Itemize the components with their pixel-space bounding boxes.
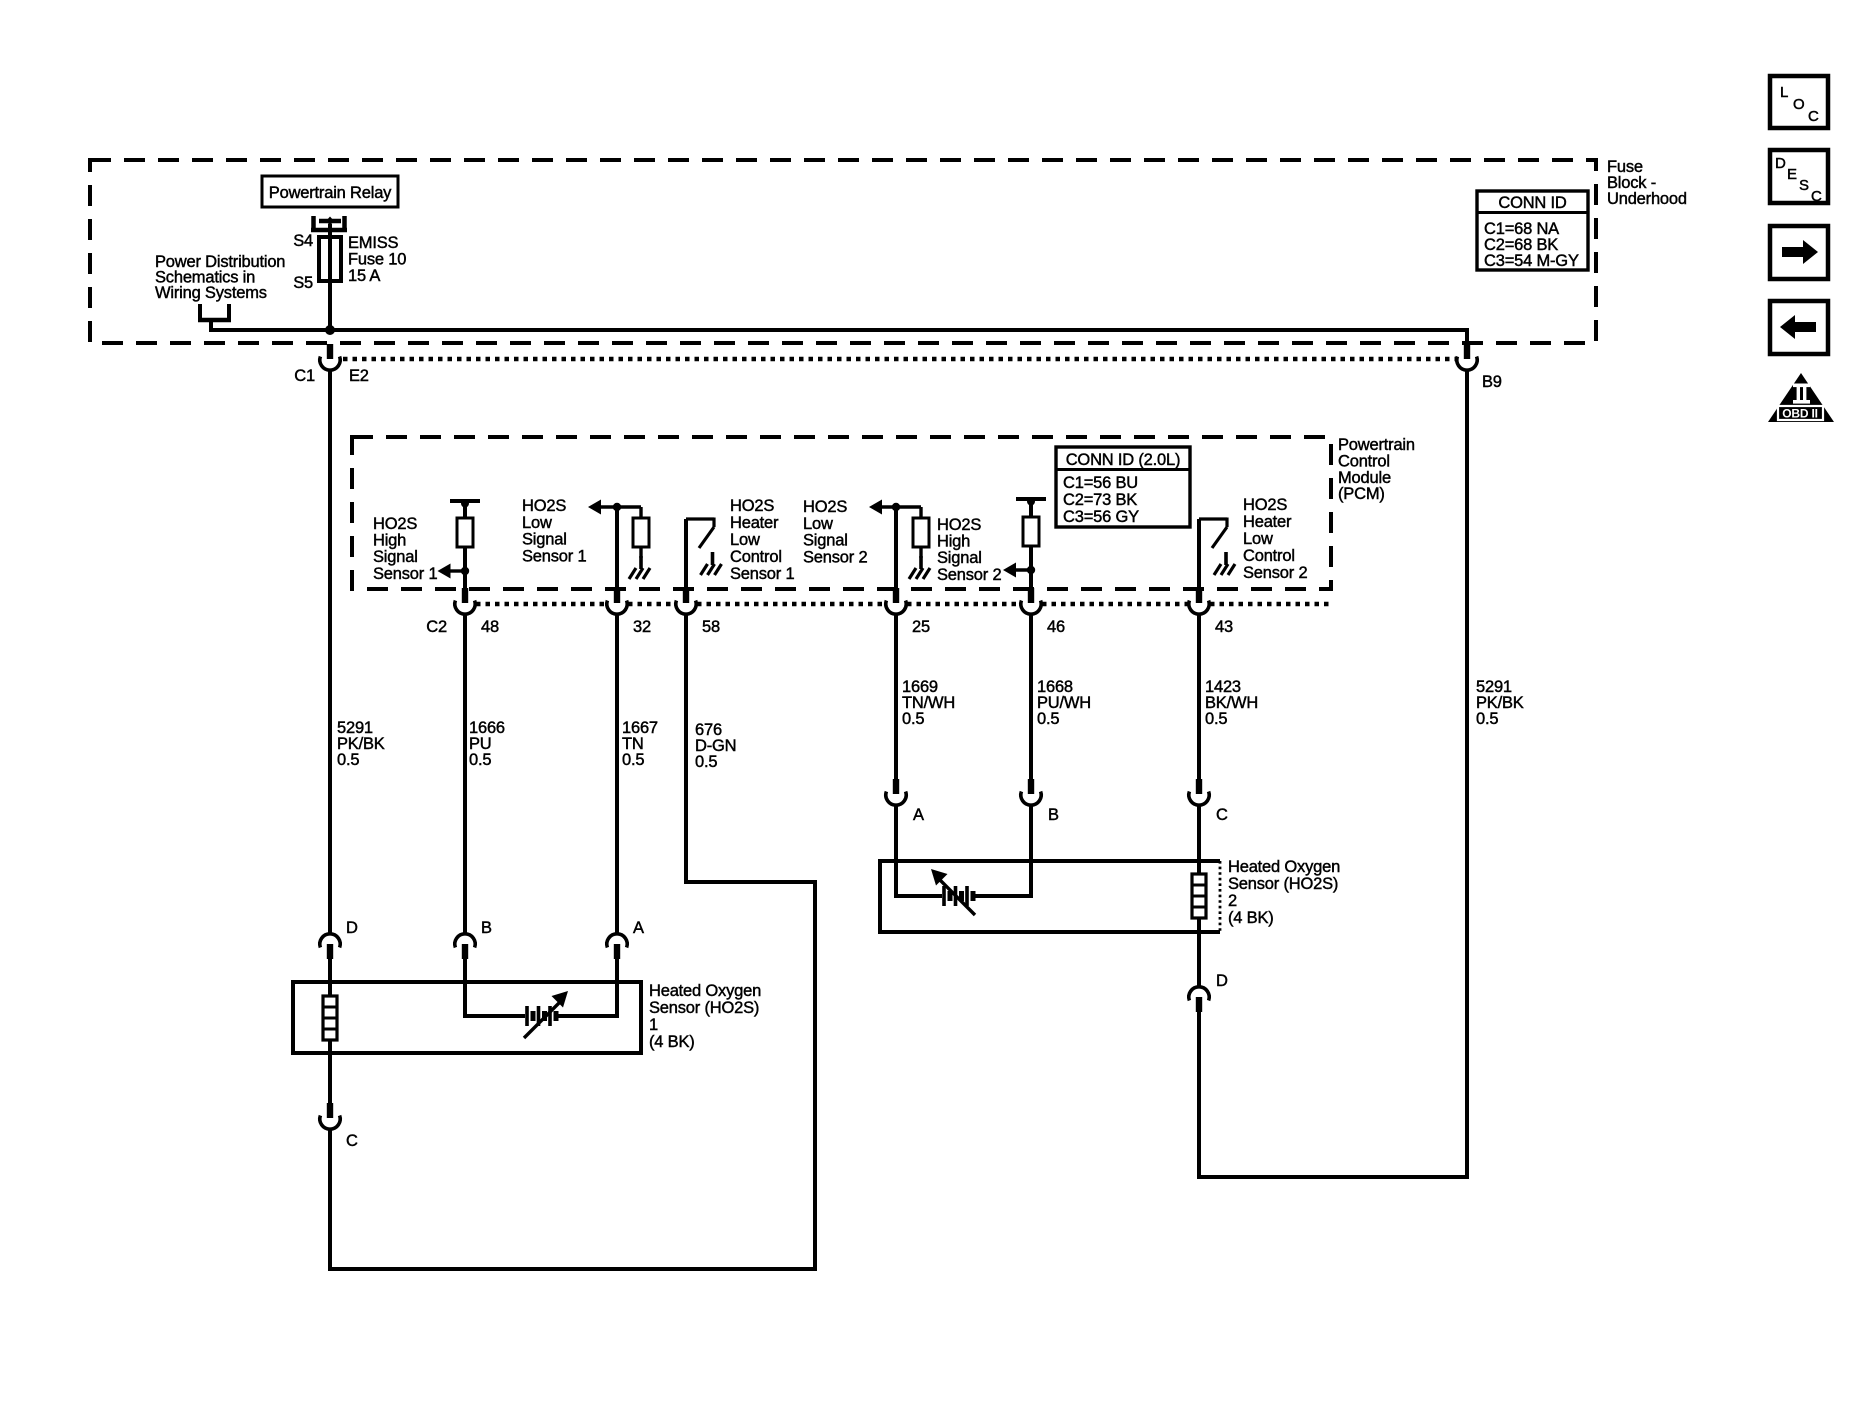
PCM dashed boundary [352,437,1331,589]
svg-text:Signal: Signal [803,532,848,550]
svg-text:S: S [1799,177,1809,194]
svg-text:C: C [1811,188,1822,205]
svg-text:58: 58 [702,618,720,636]
wire into HO2S1 box pin B [463,959,467,984]
svg-text:Signal: Signal [373,548,418,566]
connector id table CONN ID C1=68 NA C2=68 BK C3=54 M-GY [1477,191,1588,270]
svg-text:Control: Control [1338,452,1390,470]
wire into HO2S2 box pin C [1197,805,1201,863]
connector HO2S1 harness pin B [455,934,475,959]
svg-text:S4: S4 [293,232,313,250]
svg-text:Module: Module [1338,469,1391,487]
svg-text:EMISS: EMISS [348,234,399,252]
svg-text:Sensor 2: Sensor 2 [937,566,1001,584]
fuse F10 EMISS 15A [319,237,341,281]
label Powertrain Control Module (PCM) [1338,436,1415,503]
svg-text:E: E [1787,166,1797,183]
svg-text:Low: Low [1243,530,1273,548]
wire HO2S1 D out of box to C connector [328,1053,332,1104]
wire label 1668 PU/WH 0.5 [1037,678,1091,728]
svg-text:48: 48 [481,618,499,636]
svg-text:(PCM): (PCM) [1338,485,1385,503]
PCM internal: HO2S High Signal Sensor 1 pull-up resistor [450,500,480,591]
svg-text:Control: Control [730,548,782,566]
wire comp4 junction to pin 25 [894,507,898,590]
icon previous arrow button [1770,301,1828,354]
svg-text:0.5: 0.5 [337,751,359,769]
svg-text:Powertrain Relay: Powertrain Relay [269,184,392,202]
connector HO2S2 pin D [1189,987,1209,1012]
wire label 1666 PU 0.5 [469,719,505,769]
svg-text:C: C [1216,806,1228,824]
ground symbol comp6 [1214,552,1235,575]
svg-text:Heater: Heater [1243,513,1292,531]
component box Heated Oxygen Sensor HO2S 2 [880,861,1220,932]
svg-text:0.5: 0.5 [902,710,924,728]
PCM internal: HO2S High Signal Sensor 2 pull-up resistor [1016,498,1046,591]
wire label 676 D-GN 0.5 [695,721,736,771]
svg-text:0.5: 0.5 [695,753,717,771]
connector PCM pin 46 [1021,588,1041,614]
wire label 1423 BK/WH 0.5 [1205,678,1258,728]
svg-text:C2=73 BK: C2=73 BK [1063,491,1137,509]
wire 1668 PU/WH pin46 to HO2S2 B [1029,614,1033,780]
svg-text:Low: Low [522,514,552,532]
svg-text:A: A [913,806,924,824]
svg-text:CONN ID: CONN ID [1498,194,1567,212]
wire main feed drop to B9 [1465,328,1469,345]
svg-text:(4 BK): (4 BK) [1228,909,1274,927]
PCM internal: HO2S Low Signal Sensor 2 resistor to ground [869,500,929,559]
relay contact terminal bracket [311,216,347,232]
wire into HO2S1 box pin A [615,959,619,984]
label HO2S Low Signal Sensor 1 [522,497,586,565]
svg-text:Low: Low [730,531,760,549]
svg-text:O: O [1793,96,1804,113]
wire into HO2S1 box pin D [328,959,332,984]
svg-text:C1: C1 [294,367,315,385]
connector C1 / E2 inline [320,344,340,370]
svg-text:Powertrain: Powertrain [1338,436,1415,454]
svg-text:Sensor 1: Sensor 1 [373,565,437,583]
label HO2S High Signal Sensor 2 [937,516,1001,584]
svg-text:2: 2 [1228,892,1237,910]
wire 1666 PU pin48 to HO2S1 B [463,614,467,934]
connector HO2S1 pin C [320,1103,340,1129]
connector B9 inline [1457,344,1477,370]
connector HO2S2 harness pin B [1021,779,1041,805]
svg-text:C1=56 BU: C1=56 BU [1063,474,1138,492]
HO2S2 internal terminal block on pin C [1192,863,1206,932]
svg-text:C3=54 M-GY: C3=54 M-GY [1484,252,1579,270]
svg-text:Signal: Signal [937,549,982,567]
svg-text:0.5: 0.5 [469,751,491,769]
svg-text:HO2S: HO2S [1243,496,1287,514]
ground symbol comp4 [909,556,930,579]
PCM internal: HO2S Heater Low Control Sensor 1 driver switch [686,518,714,591]
arrow to Sensor 1 label [438,564,466,579]
svg-text:46: 46 [1047,618,1065,636]
PCM internal: HO2S Low Signal Sensor 1 resistor to ground [588,500,649,559]
wire 1669 TN/WH pin25 to HO2S2 A [894,614,898,780]
arrow to Sensor 2 label [1003,563,1031,578]
junction dot comp4 [892,503,900,511]
svg-text:Heated Oxygen: Heated Oxygen [1228,858,1340,876]
svg-text:High: High [373,532,406,550]
fuse value label EMISS Fuse 10 15 A [348,234,406,285]
svg-text:0.5: 0.5 [1205,710,1227,728]
PCM internal: HO2S Heater Low Control Sensor 2 driver switch [1199,518,1227,591]
svg-text:Fuse 10: Fuse 10 [348,251,406,269]
svg-text:Signal: Signal [522,531,567,549]
wire fuse S5 down to bus junction [328,281,332,332]
wire 1423 BK/WH pin43 to HO2S2 C [1197,614,1201,780]
label Heated Oxygen Sensor (HO2S) 2 (4 BK) [1228,858,1340,927]
svg-text:B: B [481,919,492,937]
svg-text:HO2S: HO2S [803,498,847,516]
svg-text:HO2S: HO2S [373,515,417,533]
svg-text:High: High [937,533,970,551]
HO2S1 internal heater element [465,982,617,1038]
svg-text:C: C [1808,108,1819,125]
svg-text:Sensor 2: Sensor 2 [1243,564,1307,582]
svg-text:OBD II: OBD II [1782,407,1817,421]
svg-text:(4 BK): (4 BK) [649,1033,695,1051]
junction dot comp2 [613,503,621,511]
svg-text:Control: Control [1243,547,1295,565]
svg-text:Sensor 1: Sensor 1 [730,565,794,583]
svg-text:Low: Low [803,515,833,533]
connector PCM pin 43 [1189,588,1209,614]
label HO2S High Signal Sensor 1 [373,515,437,583]
wire comp2 junction to pin 32 [615,507,619,590]
label HO2S Low Signal Sensor 2 [803,498,867,566]
svg-text:L: L [1780,84,1788,101]
HO2S1 internal terminal block on pin D [323,982,337,1053]
wire 5291 PK/BK right segment B9 to HO2S2 D [1197,370,1469,1179]
svg-text:Wiring Systems: Wiring Systems [155,284,267,302]
svg-text:1: 1 [649,1016,658,1034]
svg-text:CONN ID (2.0L): CONN ID (2.0L) [1066,451,1181,469]
fuse block underhood dashed boundary [90,160,1596,343]
svg-text:A: A [633,919,644,937]
label HO2S Heater Low Control Sensor 2 [1243,496,1307,582]
label HO2S Heater Low Control Sensor 1 [730,497,794,583]
connector HO2S1 harness pin A [607,934,627,959]
junction dot at fuse output [325,325,335,335]
connector row dotted line C1/E2 to B9 [343,357,1456,362]
svg-text:HO2S: HO2S [522,497,566,515]
svg-text:43: 43 [1215,618,1233,636]
wire into HO2S2 box pin A [894,805,898,863]
icon DESC button [1770,150,1828,205]
connector PCM pin 25 [886,588,906,614]
wire label 5291 PK/BK 0.5 left [337,719,385,769]
wire 5291 PK/BK left segment C1 to HO2S1 D [328,370,332,934]
connector id table CONN ID (2.0L) C1=56 BU C2=73 BK C3=56 GY [1056,447,1190,527]
connector row dotted line PCM C2 [476,602,1331,607]
icon next arrow button [1770,226,1828,279]
svg-text:HO2S: HO2S [937,516,981,534]
svg-text:D: D [1216,972,1228,990]
svg-text:C3=56 GY: C3=56 GY [1063,508,1139,526]
wire relay to fuse, node S4 [328,224,332,239]
ground symbol comp2 [629,556,650,579]
wire label 1669 TN/WH 0.5 [902,678,955,728]
wire main feed bus y330 [211,328,1467,332]
svg-text:HO2S: HO2S [730,497,774,515]
svg-text:0.5: 0.5 [1476,710,1498,728]
reference label Power Distribution Schematics in Wiring Systems [155,253,285,302]
svg-text:0.5: 0.5 [1037,710,1059,728]
svg-text:0.5: 0.5 [622,751,644,769]
junction dot comp5 [1027,566,1035,574]
wire 1667 TN pin32 to HO2S1 A [615,614,619,934]
wire label 1667 TN 0.5 [622,719,658,769]
component box Heated Oxygen Sensor HO2S 1 [293,982,641,1053]
connector HO2S2 harness pin A [886,779,906,805]
relay K powertrain relay box label [262,176,398,207]
svg-text:B9: B9 [1482,373,1502,391]
svg-text:C: C [346,1132,358,1150]
svg-text:E2: E2 [349,367,369,385]
svg-text:25: 25 [912,618,930,636]
junction dot comp1 [461,567,469,575]
icon OBD II symbol [1768,373,1834,422]
connector HO2S1 harness pin D [320,934,340,959]
svg-text:Sensor 2: Sensor 2 [803,548,867,566]
label Heated Oxygen Sensor (HO2S) 1 (4 BK) [649,982,761,1051]
svg-text:Heated Oxygen: Heated Oxygen [649,982,761,1000]
svg-text:32: 32 [633,618,651,636]
svg-text:S5: S5 [293,274,313,292]
wire 676 D-GN pin58 loop to HO2S1 C [330,614,817,1271]
svg-text:C2: C2 [426,618,447,636]
connector PCM pin 48 [455,588,475,614]
wire into HO2S2 box pin B [1029,805,1033,863]
connector HO2S2 harness pin C [1189,779,1209,805]
connector PCM pin 58 [676,588,696,614]
svg-text:Heater: Heater [730,514,779,532]
ground symbol comp3 [701,552,722,575]
wire HO2S2 C out of box to D connector [1197,932,1201,988]
label Fuse Block - Underhood [1607,158,1687,208]
HO2S2 internal heater element [896,863,1031,915]
svg-text:Sensor (HO2S): Sensor (HO2S) [649,999,759,1017]
connector PCM pin 32 [607,588,627,614]
wire label 5291 PK/BK 0.5 right [1476,678,1524,728]
svg-text:Sensor (HO2S): Sensor (HO2S) [1228,875,1338,893]
svg-text:Sensor 1: Sensor 1 [522,547,586,565]
off-page bracket from power distribution [198,304,231,332]
svg-text:D: D [1775,155,1786,172]
svg-text:D: D [346,919,358,937]
svg-text:B: B [1048,806,1059,824]
svg-text:15 A: 15 A [348,267,380,285]
icon LOC button [1770,76,1828,128]
svg-text:Underhood: Underhood [1607,190,1687,208]
